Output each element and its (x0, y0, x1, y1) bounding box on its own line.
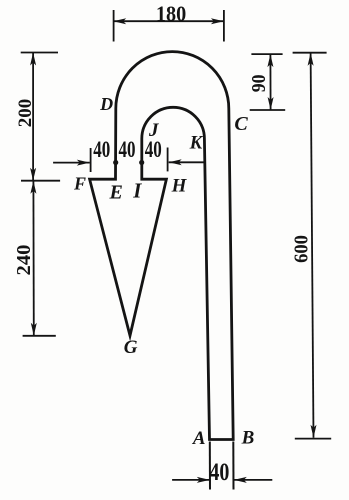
dimension 180 left arrow (113, 18, 126, 24)
dimension 600 line (311, 53, 314, 438)
dimension 40x3 right leader line (169, 161, 205, 163)
junction dot on line DE (113, 160, 118, 165)
dimension 40 bottom left leader line (172, 479, 210, 481)
dimension 240 line (32, 181, 34, 336)
dimension 40 bottom left arrow (197, 477, 210, 483)
dimension 180 line (114, 20, 224, 22)
dimension 90 extension lines (right) (250, 54, 286, 110)
junction dot on line IJ (139, 160, 144, 165)
dimension 200 bottom arrow (30, 168, 36, 181)
dimension 90 top arrow (267, 54, 273, 67)
dimension 40x3 left leader line (53, 162, 90, 164)
dimension 240 extension line (bottom left) (23, 335, 56, 337)
svg-text:600: 600 (291, 235, 313, 263)
dimension 200 top arrow (30, 53, 36, 66)
svg-text:G: G (124, 337, 138, 358)
svg-text:90: 90 (248, 75, 270, 93)
dimension 200 line (32, 53, 34, 181)
svg-text:H: H (171, 176, 188, 197)
dimension 240 top arrow (30, 181, 36, 194)
svg-text:40: 40 (145, 138, 162, 163)
dimension 240 bottom arrow (31, 323, 37, 336)
svg-text:I: I (132, 179, 142, 203)
svg-text:D: D (99, 94, 113, 114)
svg-text:40: 40 (93, 138, 110, 163)
dimension 600 extension lines (right) (293, 53, 332, 439)
svg-text:180: 180 (156, 1, 186, 26)
dimension 40 bottom extension lines (210, 442, 234, 490)
dimension 600 bottom arrow (311, 425, 317, 438)
dimension 40x3 left arrow (77, 160, 90, 166)
svg-text:A: A (192, 428, 206, 449)
svg-text:C: C (234, 113, 248, 135)
dimension 180 extension lines (top) (114, 10, 224, 42)
svg-text:240: 240 (13, 245, 35, 276)
dimension 600 top arrow (308, 53, 314, 66)
svg-text:F: F (73, 174, 86, 194)
dimension 40x3 right arrow (169, 159, 182, 165)
svg-text:40: 40 (118, 138, 135, 163)
dimension 180 right arrow (211, 18, 224, 24)
dimension 200 extension lines (left) (21, 53, 60, 181)
dimension 40 bottom right arrow (234, 477, 247, 483)
wire outline: closed bent-wire shape A-B-C-arc-D-E-F-G-H-I-J-arc-K-A (90, 52, 234, 440)
svg-text:B: B (241, 428, 255, 449)
svg-text:J: J (148, 120, 159, 141)
dimension 40x3 tick at F (90, 148, 92, 172)
svg-text:40: 40 (209, 458, 229, 486)
svg-text:E: E (109, 182, 123, 204)
svg-text:200: 200 (15, 99, 36, 128)
dimension 40 bottom right leader line (234, 479, 272, 481)
dimension 90 bottom arrow (268, 97, 274, 110)
dimension 40x3 tick at H (167, 148, 169, 172)
svg-text:K: K (189, 132, 204, 153)
dimension 90 line (269, 54, 271, 110)
